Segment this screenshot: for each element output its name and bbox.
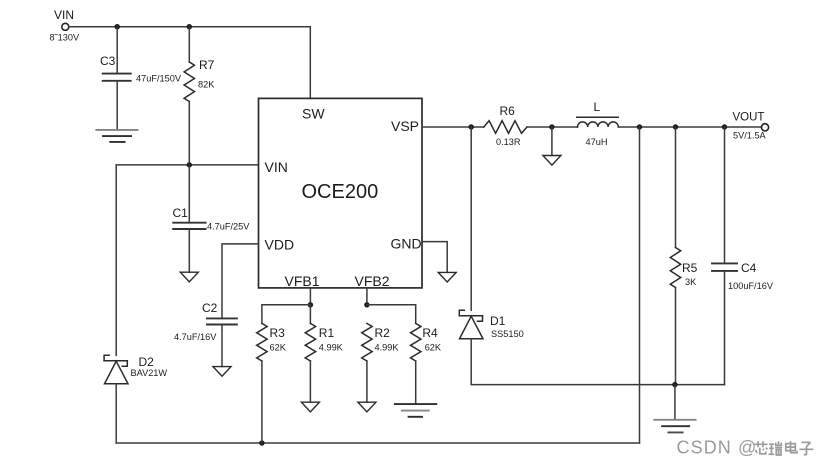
- wire L to VOUT: [618, 126, 761, 128]
- node junction C4: [722, 124, 727, 129]
- node junction feedback drop: [637, 124, 642, 129]
- svg-text:R6: R6: [500, 104, 516, 118]
- svg-text:R4: R4: [422, 326, 438, 340]
- terminal VOUT: [761, 124, 768, 131]
- svg-text:C4: C4: [741, 261, 757, 275]
- svg-text:C2: C2: [202, 301, 218, 315]
- resistor R1: [305, 323, 315, 361]
- ground arrow GND: [438, 272, 456, 282]
- wire ground stub after R6: [551, 127, 553, 156]
- wire R6 to L: [527, 126, 578, 128]
- ground arrow after R6: [543, 156, 561, 166]
- svg-text:R2: R2: [375, 326, 391, 340]
- node junction ground arrow after R6: [549, 124, 554, 129]
- wire VFB2 to R4: [367, 305, 416, 324]
- svg-text:VIN: VIN: [265, 159, 288, 175]
- wire VFB2 pin lead: [366, 288, 368, 305]
- wire VFB1 pin lead: [309, 288, 311, 305]
- svg-text:OCE200: OCE200: [302, 181, 379, 203]
- ground earth output: [654, 420, 695, 433]
- wire D1 bottom rail: [471, 339, 724, 385]
- svg-text:VOUT: VOUT: [733, 112, 765, 124]
- node VFB1: [308, 302, 313, 307]
- wire GND pin: [422, 242, 447, 273]
- wire C1 top lead: [188, 165, 190, 222]
- wire VSP rail: [422, 126, 484, 128]
- wire C2 bottom lead: [221, 325, 223, 366]
- wire R5 top lead: [675, 127, 677, 248]
- ground arrow C2: [213, 367, 231, 377]
- svg-text:R5: R5: [682, 261, 698, 275]
- capacitor C4: [712, 263, 737, 271]
- svg-text:C3: C3: [100, 54, 116, 68]
- svg-text:8˜130V: 8˜130V: [50, 33, 80, 43]
- svg-text:47uH: 47uH: [586, 137, 608, 147]
- node VFB2: [364, 302, 369, 307]
- svg-text:VFB1: VFB1: [285, 273, 320, 289]
- svg-text:3K: 3K: [685, 277, 697, 287]
- svg-text:4.7uF/16V: 4.7uF/16V: [174, 332, 217, 342]
- wire D2 bottom lead: [115, 384, 117, 443]
- svg-text:62K: 62K: [425, 343, 442, 353]
- svg-text:VIN: VIN: [54, 8, 74, 22]
- resistor R2: [362, 323, 372, 361]
- capacitor C3: [103, 74, 131, 81]
- node junction C1 top: [187, 162, 192, 167]
- wire C3 bottom lead: [116, 82, 118, 130]
- wire R1 bottom lead: [309, 361, 311, 402]
- wire top rail VIN to SW: [69, 26, 310, 28]
- svg-text:4.99K: 4.99K: [375, 343, 400, 353]
- svg-text:5V/1.5A: 5V/1.5A: [733, 131, 767, 141]
- diode D1 SS5150: [459, 127, 483, 339]
- svg-text:4.7uF/25V: 4.7uF/25V: [207, 222, 250, 232]
- inductor L: [577, 117, 619, 127]
- svg-text:C1: C1: [173, 206, 189, 220]
- terminal VIN: [62, 23, 69, 30]
- wire R4 bottom lead: [415, 361, 417, 403]
- wire left drop to D2: [115, 165, 117, 356]
- wire SW drop: [309, 27, 311, 99]
- svg-text:VFB2: VFB2: [355, 273, 390, 289]
- svg-text:SW: SW: [302, 106, 325, 122]
- wire R1 top lead: [309, 305, 311, 324]
- resistor R7: [184, 62, 194, 102]
- node junction bottom rail R3: [259, 440, 264, 445]
- wire R3 bottom lead: [261, 361, 263, 443]
- wire bottom rail: [116, 442, 639, 444]
- wire VFB1 to R3: [262, 305, 311, 324]
- ground earth C3: [96, 130, 137, 142]
- node junction output ground: [672, 382, 677, 387]
- wire ground stub output: [674, 385, 676, 420]
- svg-text:CSDN @: CSDN @: [677, 438, 758, 458]
- svg-text:0.13R: 0.13R: [496, 137, 521, 147]
- capacitor C2: [207, 318, 237, 324]
- wire R7 top lead: [188, 27, 190, 62]
- wire C4 bottom lead: [724, 272, 726, 385]
- svg-text:SS5150: SS5150: [491, 329, 524, 339]
- wire C3 top lead: [116, 27, 118, 73]
- svg-text:R7: R7: [199, 58, 215, 72]
- resistor R5: [670, 248, 680, 288]
- svg-text:D1: D1: [490, 314, 506, 328]
- wire feedback drop: [639, 127, 641, 443]
- svg-text:100uF/16V: 100uF/16V: [728, 281, 774, 291]
- node junction R5: [673, 124, 678, 129]
- svg-text:L: L: [594, 100, 601, 114]
- watermark hanzi approximations: [754, 441, 814, 455]
- wire R5 bottom lead: [675, 288, 677, 385]
- diode D2 BAV21W: [104, 355, 128, 384]
- ground arrow R2: [358, 402, 376, 412]
- svg-text:62K: 62K: [270, 343, 287, 353]
- resistor R6: [484, 121, 527, 134]
- node junction top rail R7: [187, 24, 192, 29]
- svg-text:VDD: VDD: [265, 237, 295, 253]
- svg-text:82K: 82K: [198, 79, 215, 89]
- svg-text:47uF/150V: 47uF/150V: [136, 73, 182, 83]
- ic U1 OCE200 box: [259, 98, 423, 288]
- resistor R3: [257, 323, 267, 361]
- capacitor C1: [173, 223, 205, 229]
- svg-text:4.99K: 4.99K: [319, 343, 344, 353]
- wire C1 bottom lead: [188, 230, 190, 272]
- resistor R4: [411, 323, 421, 361]
- svg-text:R3: R3: [270, 326, 286, 340]
- node VSP D1 branch: [469, 124, 474, 129]
- svg-text:BAV21W: BAV21W: [131, 368, 168, 378]
- svg-text:VSP: VSP: [391, 118, 419, 134]
- ground arrow C1: [180, 272, 198, 282]
- node junction top rail C3: [115, 24, 120, 29]
- wire VIN pin rail: [116, 164, 258, 166]
- svg-text:R1: R1: [319, 326, 335, 340]
- ground earth R4: [395, 404, 436, 417]
- wire C4 top lead: [724, 127, 726, 262]
- wire VDD pin: [222, 244, 259, 318]
- wire R7 bottom lead: [188, 102, 190, 165]
- svg-text:GND: GND: [391, 236, 422, 252]
- wire R2 bottom lead: [366, 361, 368, 402]
- ground arrow R1: [301, 402, 319, 412]
